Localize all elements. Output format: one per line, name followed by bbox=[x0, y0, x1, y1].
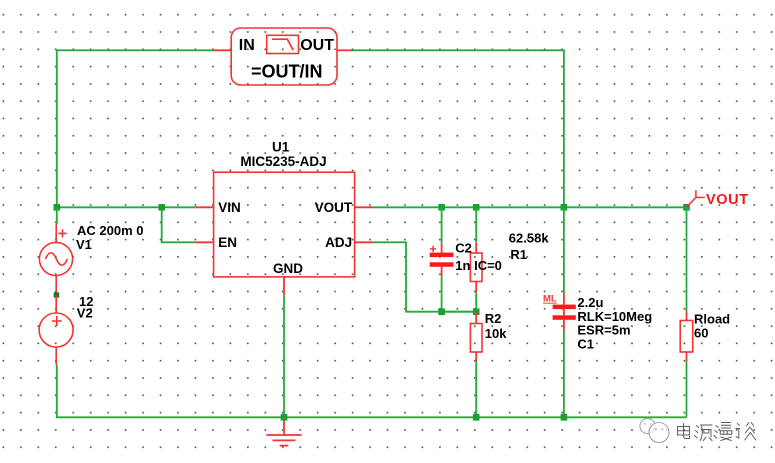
node junction C2 bottom / ADJ row bbox=[438, 308, 445, 315]
IC U1 MIC5235-ADJ bbox=[196, 140, 373, 296]
svg-text:VOUT: VOUT bbox=[315, 200, 353, 215]
node junction R1 bottom / R2 top bbox=[473, 308, 480, 315]
svg-text:ADJ: ADJ bbox=[325, 235, 352, 250]
capacitor C1 bbox=[543, 207, 652, 417]
voltage source V1 (AC) bbox=[39, 207, 143, 295]
svg-text:VIN: VIN bbox=[218, 200, 241, 215]
node junction R1 top bbox=[473, 204, 480, 211]
node junction VOUT output bbox=[683, 204, 690, 211]
svg-text:V1: V1 bbox=[76, 237, 92, 252]
wire left rail top segment bbox=[57, 50, 214, 207]
svg-text:60: 60 bbox=[694, 325, 708, 340]
wire left rail bottom bbox=[57, 365, 687, 418]
svg-text:AC 200m 0: AC 200m 0 bbox=[77, 223, 143, 238]
wire probe output to VOUT node column bbox=[351, 50, 564, 207]
capacitor C2 bbox=[430, 207, 502, 311]
svg-text:C1: C1 bbox=[577, 336, 594, 351]
ground bbox=[266, 421, 301, 446]
node junction between V1 and V2 bbox=[54, 292, 59, 297]
wire ADJ pin right/down to divider tap bbox=[373, 242, 471, 311]
logo watermark bubbles bbox=[640, 418, 669, 442]
svg-text:Rload: Rload bbox=[694, 311, 730, 326]
svg-text:1n IC=0: 1n IC=0 bbox=[455, 258, 502, 273]
node VOUT probe hook and label bbox=[687, 190, 749, 208]
node junction EN tap bbox=[158, 204, 165, 211]
svg-text:U1: U1 bbox=[272, 140, 290, 155]
svg-text:R2: R2 bbox=[485, 311, 502, 326]
node junction left rail VIN bbox=[54, 204, 61, 211]
svg-text:EN: EN bbox=[218, 235, 237, 250]
wire ADJ tap across to R2 top bbox=[442, 311, 477, 313]
wire VIN row from rail to U1 bbox=[57, 206, 196, 208]
svg-text:V2: V2 bbox=[77, 305, 93, 320]
probe transfer-function block =OUT/IN bbox=[214, 28, 351, 85]
svg-text:MIC5235-ADJ: MIC5235-ADJ bbox=[240, 154, 326, 169]
resistor Rload bbox=[680, 207, 730, 417]
node junction probe/C1 column bbox=[561, 204, 568, 211]
svg-text:=OUT/IN: =OUT/IN bbox=[251, 61, 323, 81]
svg-text:VOUT: VOUT bbox=[706, 192, 749, 208]
wire EN tap: down and right to EN pin bbox=[162, 207, 196, 242]
wire VOUT row from U1 to Rload column bbox=[373, 206, 687, 208]
svg-text:RLK=10Meg: RLK=10Meg bbox=[577, 309, 652, 324]
node junction GND rail bbox=[281, 414, 288, 421]
svg-text:R1: R1 bbox=[510, 247, 527, 262]
watermark text 电源漫谈 bbox=[678, 423, 756, 441]
node junction C1 bottom rail bbox=[561, 414, 568, 421]
svg-text:OUT: OUT bbox=[300, 37, 334, 54]
resistor R1 bbox=[470, 207, 549, 311]
svg-text:ML: ML bbox=[543, 294, 557, 305]
svg-text:ESR=5m: ESR=5m bbox=[577, 323, 630, 338]
svg-text:62.58k: 62.58k bbox=[509, 231, 550, 246]
voltage source V2 (DC 12) bbox=[39, 294, 93, 365]
svg-text:2.2u: 2.2u bbox=[577, 295, 603, 310]
svg-text:IN: IN bbox=[239, 37, 255, 54]
resistor R2 bbox=[470, 311, 507, 417]
svg-text:GND: GND bbox=[273, 261, 303, 276]
svg-text:10k: 10k bbox=[485, 326, 507, 341]
node junction C2 top bbox=[438, 204, 445, 211]
wire GND pin to bottom rail bbox=[283, 296, 285, 418]
svg-text:C2: C2 bbox=[455, 240, 472, 255]
node junction R2 bottom rail bbox=[473, 414, 480, 421]
